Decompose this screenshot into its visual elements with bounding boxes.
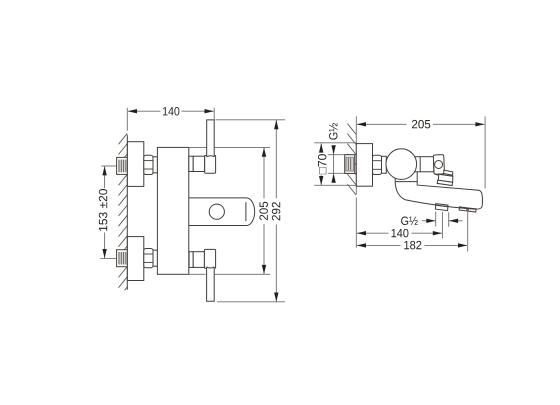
spout end inner line (front view) xyxy=(245,202,247,221)
aerator tab left (side view) xyxy=(459,207,467,211)
wall line / extension line (side view) xyxy=(355,116,357,247)
dimension 182 line (side view) xyxy=(357,244,467,246)
lever hub under-edge (side view) xyxy=(435,174,443,175)
escutcheon plate bottom (front view) xyxy=(127,237,143,281)
dimension 70 extension line bottom (side view) xyxy=(314,184,356,186)
dimension 205 arrow bottom xyxy=(262,265,266,274)
shower hose outlet (side view) xyxy=(435,204,448,211)
dimension 205 arrow right (side view) xyxy=(475,122,484,126)
dimension G1/2 inlet extension line bottom (side view) xyxy=(328,172,356,174)
dimension 205 arrow top xyxy=(262,148,266,157)
dimension G1/2 inlet arrow bottom xyxy=(331,174,335,183)
dimension 182 extension line (side view) xyxy=(467,211,469,251)
dimension 292 extension line bottom (lever rod bottom) xyxy=(217,301,285,303)
dimension 153 arrow bottom xyxy=(102,249,106,258)
dimension G1/2 outlet text xyxy=(401,217,418,226)
escutcheon plate (side view) xyxy=(356,144,372,187)
bottom lever rod (front view) xyxy=(207,267,215,301)
dimension 205 extension line top (body top) xyxy=(189,146,270,148)
dimension 205 extension line bottom (body bottom) xyxy=(189,273,270,275)
diverter knob neck (side view) xyxy=(444,170,453,175)
top lever connector ring (front view) xyxy=(189,156,193,171)
dimension 140 line xyxy=(128,110,214,112)
top lever connector sleeve (front view) xyxy=(193,156,205,171)
lever handle end-on (side view) xyxy=(433,155,444,175)
bottom lever connector sleeve (front view) xyxy=(193,252,204,268)
dimension 153 arrow top xyxy=(102,166,106,175)
dimension 205 arrow left (side view) xyxy=(357,122,366,126)
diverter knob cap (side view) xyxy=(438,174,453,182)
dimension 140 line (side view) xyxy=(357,232,442,234)
dimension 140 arrow left xyxy=(128,109,137,113)
spout shoulder line (side view) xyxy=(395,181,417,183)
aerator tab right (side view) xyxy=(468,208,476,212)
dimension 140 arrow right xyxy=(205,109,214,113)
lever rod end-on circle (side view) xyxy=(435,161,443,169)
diverter knob rim (side view) xyxy=(437,180,452,185)
dimension G1/2 outlet extension lines (side view) xyxy=(436,212,449,239)
dimension 292 arrow bottom xyxy=(274,293,278,302)
bottom lever hub (front view) xyxy=(204,249,215,268)
spout (front view) xyxy=(189,198,255,226)
dimension 140 text (side view) xyxy=(392,229,409,238)
wall line (front view) xyxy=(126,135,128,290)
top lever hub (front view) xyxy=(205,155,216,173)
wall supply nipple (side view) xyxy=(345,155,355,174)
dimension 70 text xyxy=(318,154,327,174)
wall hatching (front view) xyxy=(119,133,128,298)
bottom lever connector ring (front view) xyxy=(189,252,193,268)
dimension 70 line (side view) xyxy=(320,144,322,186)
dimension 292 text (front view) xyxy=(272,202,281,220)
wall supply nipple bottom (front view) xyxy=(117,250,128,267)
spout (side view) xyxy=(395,172,482,209)
dimension 140 text xyxy=(163,107,179,116)
top lever rod (front view) xyxy=(207,120,215,157)
dimension 205 line (front view) xyxy=(263,148,265,274)
mixer body (front view) xyxy=(157,147,188,274)
cartridge housing inner edge (side view) xyxy=(419,157,421,172)
wall supply nipple top (front view) xyxy=(117,157,128,174)
dimension 205 text (side view) xyxy=(412,120,430,128)
mixing ball body (side view) xyxy=(386,149,417,180)
dimension 70 arrow top xyxy=(319,143,323,152)
dimension 205 text (front view) xyxy=(259,202,268,220)
dimension 153 line xyxy=(104,166,106,258)
spout screw boss (front view) xyxy=(209,204,224,219)
dimension 140 extension line right (lever rod) xyxy=(213,108,215,120)
dimension 292 line (front view) xyxy=(275,120,277,302)
dimension G1/2 inlet extension line top (side view) xyxy=(328,154,356,156)
dimension 153 text xyxy=(99,189,108,231)
dimension 70 arrow bottom xyxy=(319,176,323,185)
dimension 153 extension line bottom xyxy=(100,257,116,259)
union sleeve top (front view) xyxy=(153,157,157,173)
dimension G1/2 inlet arrow top xyxy=(331,145,335,154)
dimension 292 arrow top xyxy=(274,120,278,129)
dimension 182 text (side view) xyxy=(404,241,421,250)
union hex nut (side view) xyxy=(373,155,382,174)
union sleeve (side view) xyxy=(382,156,387,173)
dimension 153 extension line top xyxy=(102,165,117,167)
union hex nut top (front view) xyxy=(144,155,153,174)
dimension 205 line (side view) xyxy=(357,123,484,125)
dimension 70 extension line top (side view) xyxy=(314,142,356,144)
union sleeve bottom (front view) xyxy=(153,250,157,266)
dimension 140 extension line left (wall) xyxy=(126,108,128,131)
dimension G1/2 outlet line left with arrow xyxy=(422,220,436,222)
wall hatching (side view) xyxy=(347,124,356,196)
dimension G1/2 inlet line (side view) xyxy=(333,146,335,182)
dimension G1/2 inlet text xyxy=(329,123,338,140)
escutcheon plate top (front view) xyxy=(127,142,143,187)
dimension 205 extension line right (spout tip) xyxy=(484,116,486,188)
union hex nut bottom (front view) xyxy=(144,249,153,268)
dimension G1/2 outlet line right with arrow xyxy=(449,220,463,222)
dimension 292 extension line top (lever rod top) xyxy=(216,119,286,121)
cartridge housing (side view) xyxy=(409,157,434,172)
